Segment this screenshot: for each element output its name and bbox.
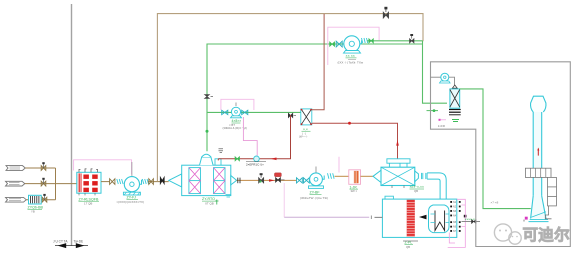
svg-text:3W ×: 3W × [351, 189, 358, 193]
expansion joint at T-1 outlet [238, 178, 240, 184]
right section box [431, 62, 571, 247]
wire inlet 2 to furnace [25, 183, 77, 185]
magenta sample point at stack [524, 217, 528, 222]
wire HX hot out (maroon riser) [312, 14, 324, 110]
pink drop to flex [338, 157, 340, 173]
check valve at vessel inlet [160, 177, 164, 184]
pump P-3 (quench circulation) [223, 103, 247, 131]
node: inlet flag 2 [6, 181, 25, 186]
furnace bottom ticks and labels [79, 193, 100, 205]
svg-text:2×EFR1C·/(+: 2×EFR1C·/(+ [246, 162, 264, 166]
svg-text:≈(XXX)/(3×XXX×TX): ≈(XXX)/(3×XXX×TX) [117, 200, 145, 204]
drain fitting with tag [275, 173, 285, 182]
instrument lines (magenta) at T-2 [448, 199, 466, 247]
RTO vessel T-1 [169, 165, 237, 195]
inline pump on condensate line [246, 156, 266, 166]
green branch with dot valve [427, 109, 439, 112]
blower P-2 [300, 167, 328, 201]
wire P-4 discharge [367, 40, 423, 42]
wire fan to vessel [148, 181, 169, 183]
flex joint discharge [142, 179, 148, 184]
vent line to stack area [462, 217, 481, 223]
battery limit double arrow [53, 240, 88, 249]
svg-text:(3KtheTW ·|/(Ce T3t): (3KtheTW ·|/(Ce T3t) [300, 196, 328, 200]
wire condensate return (red) [218, 115, 290, 160]
node: inlet flag 3 [6, 197, 27, 202]
svg-text:×× ××: ×× ×× [346, 54, 355, 58]
svg-text:(W—·/·: (W—·/· [299, 135, 308, 139]
wire inlet 1 [25, 167, 55, 169]
wire inlet 3 [26, 199, 55, 201]
enclosure (pink dashed) around furnace/fan [74, 160, 132, 175]
valve fan suction [110, 179, 115, 185]
valves before P-2 [297, 178, 310, 183]
seal water line (lavender) [284, 183, 382, 219]
T-2 labels [403, 241, 418, 249]
svg-text:ZYQb-BB: ZYQb-BB [28, 205, 44, 209]
green dot valve on riser [206, 130, 209, 133]
battery limit line [71, 4, 73, 246]
polishing column K-1 [438, 85, 461, 128]
enclosure around P-4 (pink) [328, 27, 379, 65]
watermark logo [494, 224, 521, 244]
demister fan inside T-2 [429, 205, 450, 233]
valve near loop corner [410, 34, 415, 43]
svg-text:可迪尔: 可迪尔 [523, 225, 571, 244]
svg-text:1×FR: 1×FR [438, 124, 445, 128]
duct elbow V-2 to tank [422, 173, 447, 199]
wire P-2 to heater [335, 175, 349, 177]
heat exchanger E-1 [299, 109, 312, 139]
valve branch right [242, 110, 248, 114]
valve on inlet 3 [42, 194, 47, 202]
green loop downcomer [423, 41, 448, 103]
inline heater H-1 [349, 170, 361, 193]
control valve on T-1 outlet [259, 173, 264, 183]
stack S-1 [529, 96, 549, 221]
wire HX cooled out to V-2 (red) [312, 122, 399, 159]
svg-text:(IXX ·/·| TaXk· TXw: (IXX ·/·| TaXk· TXw [338, 60, 364, 64]
wire furnace to fan [101, 181, 110, 183]
flex joint suction [117, 179, 123, 184]
red arrow on line [269, 179, 275, 182]
RTO dome neck [200, 154, 222, 165]
valve fan discharge [149, 179, 154, 185]
RTO top instrument ticks [219, 149, 224, 153]
valve on brown loop top [383, 7, 388, 18]
svg-text:YB: YB [31, 210, 35, 214]
instrument on green branch [288, 113, 296, 117]
valve on green riser [205, 95, 214, 99]
svg-text:Ta+DE: Ta+DE [74, 240, 84, 244]
valve on inlet 1 [41, 162, 46, 170]
brown recycle loop [157, 14, 423, 182]
stack platform [525, 168, 551, 177]
RTO labels [202, 195, 231, 206]
svg-text:QB: QB [414, 189, 418, 193]
svg-text:QB: QB [406, 245, 410, 249]
flex P-4 discharge [362, 38, 368, 43]
green quench loop left edge [207, 44, 423, 151]
svg-text:XT QB: XT QB [205, 201, 214, 205]
nozzle cluster on T-2 [450, 201, 466, 233]
valve P-4 discharge [369, 39, 374, 43]
flame arrestor FA on inlet 3 [28, 195, 44, 213]
valve on condensate line [235, 157, 240, 161]
wire T-1 outlet [237, 179, 297, 181]
valve on inlet 2 [41, 178, 46, 186]
stack ladder cage [545, 177, 556, 218]
instrument enclosure around P-3 (pink) [221, 99, 257, 155]
svg-text:J U CT TA: J U CT TA [53, 240, 68, 244]
furnace burner stubs [79, 169, 98, 172]
wire green branch to HX [207, 111, 301, 113]
flex joint P-2 discharge [328, 173, 335, 178]
svg-text:1T QB: 1T QB [84, 202, 92, 206]
wire heater to V-2 [361, 175, 374, 177]
node: inlet flag 1 [6, 166, 25, 171]
svg-text:ZY-BF: ZY-BF [310, 191, 321, 195]
scrubber tank T-2 [382, 196, 456, 237]
green wire column to stack [460, 89, 531, 209]
filter vessel V-2 [373, 159, 424, 193]
pump P-5 in right box [431, 73, 455, 85]
svg-text:ZY-FJ: ZY-FJ [127, 196, 137, 200]
pump P-4 [338, 36, 364, 65]
green loop pump train [330, 41, 343, 47]
furnace F-1 [77, 172, 101, 193]
valve branch left [222, 110, 228, 114]
wire inlet header vertical [55, 168, 57, 200]
fan P-1 [117, 162, 145, 204]
svg-text:×7·×8: ×7·×8 [491, 201, 499, 205]
svg-text:××××·×: ××××·× [465, 217, 476, 221]
